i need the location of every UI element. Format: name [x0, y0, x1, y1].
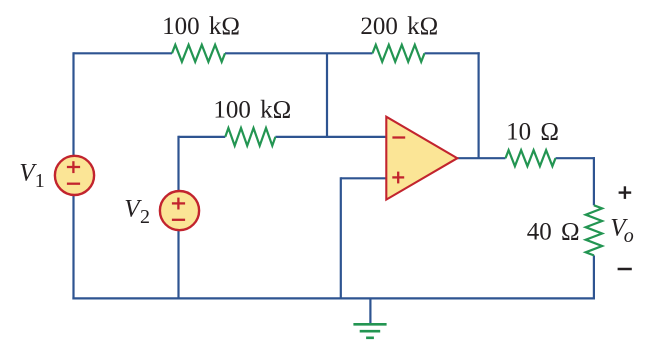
op-amp U1	[386, 117, 457, 200]
output polarity plus sign	[619, 186, 632, 199]
svg-text:40 Ω: 40 Ω	[527, 218, 580, 245]
wire: top horizontal between 100k and 200k resistors through node A	[225, 52, 373, 54]
wire: non-inverting input vertical down to bottom rail	[340, 177, 342, 298]
output polarity minus sign	[618, 268, 632, 271]
wire: top horizontal from 200k resistor to right feedback corner	[425, 52, 480, 54]
wire: inverting line from V2 corner to middle 100k resistor	[179, 136, 226, 138]
resistor 100 kOhm (top left)	[172, 45, 225, 62]
resistor 40 Ohm (load, vertical)	[586, 205, 602, 255]
resistor 10 Ohm (output series)	[506, 150, 556, 166]
wire: op-amp output to 10-ohm resistor	[456, 157, 506, 159]
ground	[353, 324, 386, 338]
wire: top-left horizontal from V1 corner to 100k resistor	[74, 52, 173, 54]
wire: V2 branch vertical upper segment	[177, 136, 179, 191]
source V1	[55, 156, 94, 195]
wire: inverting line from middle resistor to op-amp minus input	[275, 136, 386, 138]
svg-text:2: 2	[140, 206, 150, 228]
resistor 200 kOhm (feedback)	[373, 45, 425, 62]
resistor 100 kOhm (middle, V2 branch)	[225, 128, 275, 146]
wire: 10-ohm resistor to right top corner	[556, 157, 596, 159]
wire: node A vertical down to inverting input line	[326, 53, 328, 137]
wire: right vertical from corner down to 40-ohm resistor	[593, 157, 595, 205]
svg-text:10 Ω: 10 Ω	[506, 118, 559, 145]
svg-text:200 kΩ: 200 kΩ	[360, 13, 438, 40]
svg-text:100 kΩ: 100 kΩ	[162, 13, 240, 40]
svg-text:o: o	[624, 225, 634, 247]
wire: V1 branch vertical lower segment	[72, 196, 74, 300]
wire: non-inverting input horizontal	[341, 177, 386, 179]
source V2	[160, 191, 199, 230]
wire: right vertical from 40-ohm resistor to bottom rail	[593, 255, 595, 299]
svg-text:1: 1	[35, 170, 45, 192]
wire: feedback right vertical from top rail to output node	[478, 52, 480, 158]
wire: ground stem	[369, 298, 371, 323]
svg-text:100 kΩ: 100 kΩ	[213, 97, 291, 124]
wire: V1 branch vertical upper segment	[72, 52, 74, 155]
wire: V2 branch vertical lower segment	[177, 230, 179, 298]
wire: bottom rail	[72, 297, 595, 299]
